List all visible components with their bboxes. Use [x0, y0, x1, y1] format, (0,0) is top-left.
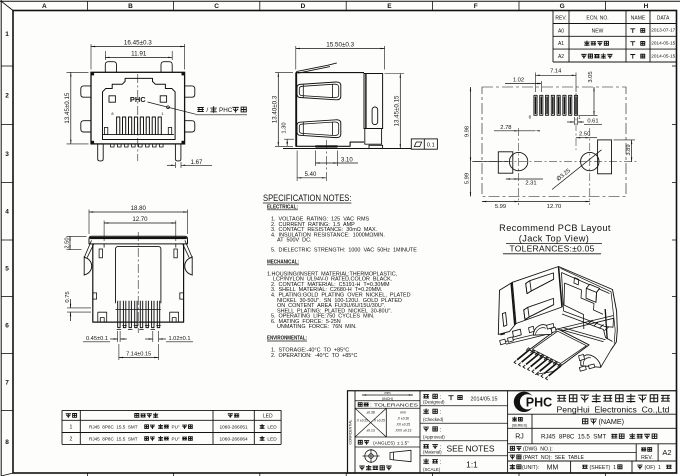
header 品名规格: [135, 413, 139, 417]
svg-text:ECN. NO.: ECN. NO.: [586, 16, 608, 22]
ear left post: [99, 249, 102, 258]
cone symbol: [390, 450, 411, 461]
svg-text:1.02±0.1: 1.02±0.1: [168, 336, 190, 342]
inch arrow cell: [355, 400, 420, 402]
svg-text:13.40±0.3: 13.40±0.3: [271, 95, 278, 123]
top post right: [161, 62, 172, 73]
PHC logo: [514, 392, 534, 412]
right hole circle: [581, 152, 599, 170]
svg-text:13.45±0.15: 13.45±0.15: [394, 95, 401, 126]
svg-text:0.61: 0.61: [587, 119, 598, 125]
spring latch lower outer: [297, 120, 341, 138]
svg-text:D: D: [301, 3, 306, 10]
iso: cavity stub near apex: [574, 278, 579, 285]
svg-text:F: F: [474, 3, 478, 10]
svg-text:1.30: 1.30: [282, 122, 288, 133]
svg-text:(Checked): (Checked): [423, 417, 444, 422]
name 丁 峻: [631, 55, 635, 59]
svg-text:A2: A2: [662, 448, 671, 457]
pad centerline pad1: [575, 93, 577, 150]
dim 18.80: [88, 210, 90, 235]
name 丁 峻: [631, 42, 635, 46]
dim 0.75: [67, 307, 91, 309]
svg-text:TOLERANCES:±0.05: TOLERANCES:±0.05: [509, 244, 594, 254]
svg-text:(SHEET) 1: (SHEET) 1: [590, 465, 617, 471]
rear shield block upper: [364, 74, 383, 129]
svg-text:.X ±0.25: .X ±0.25: [373, 419, 385, 423]
无LED: [260, 437, 264, 441]
dim 0.61: [573, 117, 575, 125]
svg-text:Recommend PCB Layout: Recommend PCB Layout: [499, 223, 611, 233]
svg-text:2.31: 2.31: [525, 181, 536, 187]
dim 7.14±0.15: [118, 344, 120, 360]
svg-text:7.14±0.15: 7.14±0.15: [126, 352, 151, 358]
RJ45 aperture stepped outline: [103, 78, 176, 139]
iso: cavity key block: [586, 284, 600, 302]
iso: collar tab on band: [513, 329, 522, 337]
dim 16.45±0.3: [90, 44, 92, 70]
pcb boundary (phantom): [482, 87, 626, 197]
svg-text:mm: mm: [385, 391, 391, 395]
svg-text:1.67: 1.67: [191, 160, 203, 166]
insert outline: [116, 246, 161, 303]
svg-text:0.75: 0.75: [65, 291, 71, 302]
contact comb (8 contacts): [117, 117, 162, 135]
side tab left lower: [81, 121, 91, 132]
iso: apex vertical edge: [559, 267, 563, 308]
third angle projection symbols: [365, 450, 377, 462]
iso: band stub: [547, 324, 554, 330]
svg-text:7: 7: [5, 379, 9, 386]
svg-text:11.91: 11.91: [131, 50, 147, 57]
iso: left snap post dome: [533, 325, 552, 336]
svg-text:(Jack Top View): (Jack Top View): [519, 234, 590, 244]
svg-text:3.10: 3.10: [341, 158, 353, 164]
svg-text:UNMATING FORCE: 76N MIN.: UNMATING FORCE: 76N MIN.: [277, 324, 357, 330]
dim 0.45±0.1: [117, 331, 119, 342]
pin feet marks: [117, 326, 161, 330]
revision table: [553, 10, 677, 12]
right pad rect: [598, 140, 612, 174]
无LED: [260, 425, 264, 429]
grid letter band top: [87, 1, 89, 10]
svg-text:3.89: 3.89: [626, 144, 632, 155]
svg-text:12.70: 12.70: [132, 216, 148, 223]
svg-text:1060-266064: 1060-266064: [219, 436, 248, 442]
latch window right: [160, 96, 166, 102]
svg-text:(DWG NO.):: (DWG NO.):: [523, 446, 553, 452]
dim 3.05: [579, 114, 598, 116]
svg-text:7.14: 7.14: [550, 68, 562, 74]
slot on rear shield: [372, 107, 378, 125]
svg-text:2.78: 2.78: [500, 125, 511, 131]
left hole circle: [509, 152, 527, 170]
svg-text:LED: LED: [263, 413, 273, 419]
dim 2.78: [494, 130, 540, 131]
svg-text:2. OPERATION: -40°C TO +85: 2. OPERATION: -40°C TO +85°C: [271, 353, 357, 359]
dim 1.30: [284, 138, 294, 140]
svg-text:AT 500V DC.: AT 500V DC.: [277, 238, 312, 244]
svg-text:A: A: [42, 3, 47, 10]
svg-text:PU": PU": [172, 425, 180, 430]
PCB ground line: [283, 148, 414, 150]
svg-text:B: B: [128, 3, 133, 10]
svg-text:C: C: [214, 3, 219, 10]
iso: cavity stepped interior: [565, 283, 604, 314]
svg-text:2014-05-15: 2014-05-15: [651, 53, 676, 58]
dim 13.45±0.15 right of side view: [385, 73, 405, 75]
dim 3.89: [614, 139, 636, 141]
front view shield body outline: [91, 72, 185, 144]
iso: top face latch bar 2: [524, 298, 554, 319]
spring latch lower inner: [299, 122, 338, 136]
cap lip edges: [103, 244, 105, 248]
iso: flap feet: [500, 339, 506, 345]
iso: bottom-right edge to lobe: [601, 350, 611, 367]
part name row: [508, 443, 677, 445]
corner dimples: [91, 72, 94, 75]
top post left: [105, 62, 116, 73]
svg-text:.X ±0.25: .X ±0.25: [356, 419, 368, 423]
label row (Approved): [424, 427, 429, 431]
narrow left strip: [354, 391, 356, 473]
svg-text:.XXX ±0.13: .XXX ±0.13: [395, 429, 412, 433]
iso: shelf hatch: [588, 320, 609, 331]
iso: cavity shelf: [564, 311, 606, 327]
corner diagonal top-left: [1, 1, 13, 10]
rear top cap: [89, 236, 188, 244]
angles row: [355, 446, 420, 448]
latch lever diagonal: [296, 63, 337, 73]
svg-text:2: 2: [5, 93, 9, 100]
crossed tolerance box: [355, 436, 420, 438]
svg-text:2014/05.15: 2014/05.15: [471, 396, 498, 402]
iso: top face latch bar 1: [526, 273, 554, 294]
svg-text:1.02: 1.02: [513, 78, 524, 84]
svg-text:1: 1: [5, 31, 9, 38]
iso: flap slot: [502, 313, 507, 327]
side view body outline: [296, 73, 364, 147]
corner flap right: [185, 240, 192, 257]
dim 1.02±0.1: [152, 331, 154, 342]
iso: cavity lower-right wall: [605, 318, 614, 327]
side tab right upper: [185, 86, 195, 97]
iso: comb of 8 SMT pins: [517, 350, 561, 376]
label row (Designed): [424, 395, 429, 398]
svg-text:(INCH): (INCH): [382, 397, 393, 401]
bottom row units: [570, 461, 572, 473]
svg-text:DATA: DATA: [657, 16, 670, 22]
svg-text:6: 6: [5, 322, 9, 329]
dim 11.91: [104, 51, 106, 60]
svg-text:5.40: 5.40: [305, 172, 317, 178]
svg-text:3: 3: [5, 151, 9, 158]
iso: cavity inner rim: [562, 273, 610, 294]
spring latch upper inner: [299, 84, 338, 98]
company logo area: [508, 413, 677, 415]
rev A1: 更新图纸: [585, 41, 589, 45]
front view legs: [98, 144, 104, 161]
insert inner line: [116, 309, 161, 311]
8 SMT pads: [534, 95, 578, 115]
bottom solder pad: [315, 145, 337, 147]
svg-text:PHC: PHC: [526, 395, 552, 409]
ear right: [191, 256, 193, 275]
rear shield foot: [369, 145, 383, 148]
hole centerlines: [474, 161, 638, 163]
iso: bottom band edges: [506, 316, 614, 342]
svg-text:SPECIFICATION NOTES:: SPECIFICATION NOTES:: [263, 193, 352, 203]
svg-text:(SCALE): (SCALE): [423, 467, 441, 472]
svg-text:±0.38: ±0.38: [366, 411, 375, 415]
svg-text:SEE NOTES: SEE NOTES: [447, 444, 495, 454]
公 差:: [358, 403, 362, 407]
spring latch upper outer: [297, 82, 341, 100]
iso: comb tip feet: [514, 360, 548, 380]
iso: right post bracket: [579, 355, 585, 361]
side tab right lower: [185, 121, 195, 132]
centerline front view: [137, 74, 139, 161]
svg-text:0.45±0.1: 0.45±0.1: [86, 336, 108, 342]
svg-text:A2: A2: [558, 54, 564, 60]
dim 3.10: [314, 151, 316, 167]
dim 2.31: [506, 178, 543, 179]
iso: top face: [512, 267, 562, 324]
第 三 角 视 图: [360, 466, 365, 470]
svg-text:/: /: [206, 107, 208, 114]
iso: white insert-bottom quad: [529, 329, 589, 366]
svg-text:NEW: NEW: [592, 28, 604, 34]
svg-text:G: G: [560, 3, 565, 10]
svg-text:(OF) 1: (OF) 1: [645, 465, 662, 471]
leader Φ3.25: [552, 150, 602, 190]
8 SMT pins: [118, 301, 160, 328]
ear right post: [174, 249, 177, 258]
svg-text:5.99: 5.99: [465, 173, 471, 184]
svg-text:1:1: 1:1: [466, 460, 478, 470]
svg-text:RJ45 8P8C 15.5 SMT: RJ45 8P8C 15.5 SMT: [89, 425, 138, 430]
iso: right post feet: [579, 366, 586, 371]
svg-text:PHC: PHC: [130, 95, 146, 104]
svg-text:1060-266051: 1060-266051: [219, 425, 248, 431]
svg-text:(Designed): (Designed): [423, 400, 445, 405]
name 丁 峻: [631, 29, 635, 33]
svg-text:(SERIES): (SERIES): [512, 424, 528, 428]
svg-text:PU": PU": [172, 436, 180, 441]
svg-text:(UNIT):: (UNIT):: [522, 465, 539, 471]
corner diagonal bottom-left: [1, 473, 13, 476]
svg-text:± 1.5°: ± 1.5°: [397, 440, 409, 445]
iso: left post brackets: [529, 326, 535, 333]
东莞市鹏辉电子有限公司: [558, 395, 566, 401]
rev A2: 新增加料号: [582, 54, 586, 58]
svg-text::: :: [370, 402, 371, 408]
series / name row: [508, 427, 677, 429]
designed name/date 丁 峻 2014/05.15: [449, 396, 453, 400]
svg-text:5. DIELECTRIC STRENGTH: 100: 5. DIELECTRIC STRENGTH: 1000 VAC 50Hz 1M…: [271, 248, 417, 254]
svg-text:2.50: 2.50: [579, 132, 590, 138]
svg-text:NAME: NAME: [631, 16, 646, 22]
label row (SCALE): [424, 459, 429, 464]
iso: right snap post dome: [581, 355, 601, 367]
svg-text:A1: A1: [558, 41, 564, 47]
svg-text:RJ45 8P8C 15.5 SMT: RJ45 8P8C 15.5 SMT: [89, 436, 138, 441]
iso: cavity face outline: [559, 267, 618, 351]
dim 1.02 pads: [540, 81, 542, 92]
dim 5.99 left vertical: [470, 87, 471, 162]
ear left: [83, 256, 85, 275]
dwg/part no rows: [508, 460, 677, 462]
rear body: [93, 244, 184, 322]
svg-text:PHC: PHC: [219, 107, 233, 114]
svg-text:4: 4: [5, 209, 9, 216]
dim 15.50±0.3: [295, 46, 297, 70]
svg-text:E: E: [387, 3, 392, 10]
side view centerline: [325, 140, 327, 182]
名称(NAME): [583, 419, 588, 424]
svg-text:CONFIDENTIAL: CONFIDENTIAL: [349, 419, 353, 444]
left pad rect: [498, 152, 513, 173]
header 料号: [228, 414, 232, 418]
dim 2.50: [67, 235, 87, 237]
svg-text:18.80: 18.80: [131, 205, 147, 212]
dim 12.70 rear: [103, 221, 105, 242]
svg-text:2013-07-17: 2013-07-17: [651, 28, 676, 33]
svg-text:9.98: 9.98: [465, 126, 471, 137]
label row (Checked): [424, 409, 429, 414]
svg-text:.X ±0.30: .X ±0.30: [397, 417, 409, 421]
dim 13.40±0.3 left of side view: [275, 72, 293, 74]
svg-text:0.1: 0.1: [427, 142, 435, 148]
dim 1.67: [174, 162, 176, 168]
svg-text:1: 1: [70, 425, 73, 431]
small side slots bottom of aperture: [104, 128, 107, 135]
svg-text:5: 5: [5, 266, 9, 273]
svg-text:LED: LED: [267, 436, 277, 442]
label row (Material): [424, 445, 429, 448]
svg-text:(NAME): (NAME): [599, 417, 625, 426]
iso: flap panel: [498, 282, 516, 334]
svg-text:REV.: REV.: [641, 455, 653, 461]
bottom dims 5.99 / 12.70: [589, 128, 591, 205]
svg-text:16.45±0.3: 16.45±0.3: [124, 40, 152, 47]
svg-text:(ANGLES): (ANGLES): [373, 440, 395, 445]
corner flap left: [84, 240, 91, 257]
版本 REV. A2: [642, 448, 646, 451]
rear view centerline: [137, 232, 139, 333]
svg-text:mm: mm: [400, 411, 406, 415]
svg-text:3.05: 3.05: [588, 71, 594, 82]
svg-text:TOLERANCES: TOLERANCES: [374, 402, 418, 407]
svg-text:2: 2: [70, 436, 73, 442]
latch window left: [109, 96, 115, 102]
svg-text:15.50±0.3: 15.50±0.3: [326, 42, 354, 49]
dim 5.40: [296, 151, 298, 182]
svg-text:REV.: REV.: [555, 16, 566, 22]
grid letter ticks bottom: [87, 473, 89, 476]
svg-text:MM: MM: [547, 465, 559, 472]
svg-text:(PART NO): SEE TABLE: (PART NO): SEE TABLE: [523, 455, 584, 461]
leader to PHC note: [148, 102, 196, 114]
svg-text:PengHui Electronics Co.,Ltd: PengHui Electronics Co.,Ltd: [557, 406, 670, 415]
bottom feet with notches: [98, 312, 107, 322]
svg-text:RJ45 8P8C 15.5 SMT: RJ45 8P8C 15.5 SMT: [541, 434, 607, 441]
svg-text:LED: LED: [267, 425, 277, 431]
svg-text:5.99: 5.99: [495, 204, 506, 210]
svg-text:A0: A0: [558, 28, 564, 34]
grid number band left: [1, 65, 13, 67]
svg-text:2.50: 2.50: [64, 237, 70, 248]
svg-text:RJ: RJ: [515, 434, 524, 441]
flatness callout box: [411, 139, 437, 149]
grid number ticks right: [672, 65, 677, 67]
outer sheet border: [0, 0, 2, 476]
svg-text:±0.13: ±0.13: [366, 429, 375, 433]
header 序号: [66, 414, 70, 418]
dim 13.45±0.15 left: [67, 71, 89, 73]
iso: cavity bottom corner heavy edge: [605, 309, 607, 339]
iso: comb root chevrons: [526, 348, 562, 367]
dim 2.50: [576, 137, 597, 138]
shield bottom teeth: [111, 144, 164, 147]
svg-text:H: H: [644, 3, 649, 10]
svg-text:(Approved): (Approved): [423, 435, 445, 440]
svg-text:2014-05-15: 2014-05-15: [651, 41, 676, 46]
svg-text:8: 8: [5, 439, 9, 446]
side tab left upper: [81, 86, 91, 97]
note 有/无PHC互换: [198, 107, 203, 111]
svg-text:12.70: 12.70: [547, 204, 562, 210]
svg-text:(Material): (Material): [423, 450, 442, 455]
rear shield block lower: [365, 129, 382, 145]
side bumps: [93, 293, 97, 299]
tolerances header: [355, 407, 420, 409]
svg-text:.XX ±0.25: .XX ±0.25: [396, 423, 411, 427]
dim 7.14 pads: [535, 73, 537, 93]
svg-text:13.45±0.15: 13.45±0.15: [64, 92, 71, 123]
iso: right descending band edges: [563, 328, 606, 340]
